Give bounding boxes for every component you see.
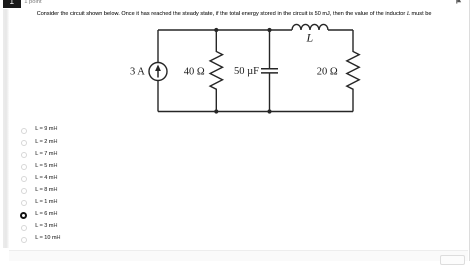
svg-text:50 µF: 50 µF: [234, 66, 259, 77]
svg-text:3 A: 3 A: [130, 66, 145, 77]
svg-text:L: L: [306, 30, 314, 44]
svg-text:20 Ω: 20 Ω: [317, 66, 338, 77]
svg-text:40 Ω: 40 Ω: [184, 66, 205, 77]
